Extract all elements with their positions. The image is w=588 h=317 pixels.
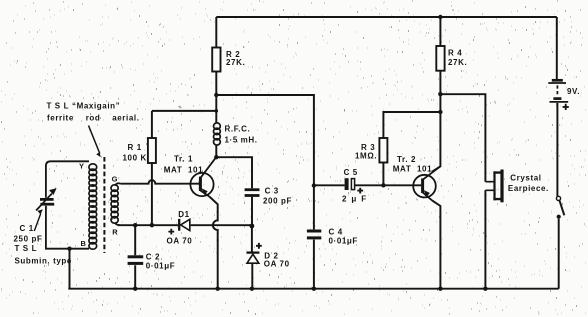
svg-text:Crystal: Crystal	[510, 174, 541, 183]
svg-text:C 5: C 5	[344, 168, 358, 177]
wire AF line to C5	[314, 184, 345, 186]
svg-text:T S L: T S L	[15, 244, 38, 253]
svg-text:C 4: C 4	[329, 228, 343, 237]
junction aerial loop bottom	[67, 247, 71, 251]
wire D2 bottom to rail	[251, 263, 253, 289]
svg-text:100 K.: 100 K.	[123, 154, 150, 163]
wire battery top	[556, 17, 558, 79]
junction R4/R3 node	[438, 110, 442, 114]
wire bottom rail	[68, 288, 558, 290]
svg-text:Tr. 2: Tr. 2	[397, 155, 416, 164]
wire C2 drop	[134, 225, 136, 289]
ferrite rod (dashed)	[103, 157, 105, 253]
junction R4 top rail	[438, 15, 442, 19]
svg-text:ferrite rod aerial.: ferrite rod aerial.	[47, 114, 140, 123]
wire detector R-line right of D1	[191, 224, 252, 226]
wire collector node to C3	[216, 157, 252, 188]
svg-text:2 μ F: 2 μ F	[342, 195, 367, 204]
svg-text:0·01μF: 0·01μF	[146, 262, 175, 271]
wire RFC bottom to collector node	[215, 145, 217, 158]
wire earpiece bottom	[484, 190, 486, 288]
svg-text:R: R	[112, 228, 118, 237]
svg-text:Submin. type: Submin. type	[15, 257, 72, 266]
wire aerial drop	[69, 249, 71, 289]
wire R2 top	[215, 17, 217, 48]
junction C4 rail	[312, 287, 316, 291]
wire battery to switch	[556, 103, 558, 196]
svg-text:B: B	[81, 239, 87, 248]
inductor L2 coupling winding	[111, 183, 120, 225]
crystal earpiece	[485, 170, 502, 203]
svg-text:1MΩ.: 1MΩ.	[355, 152, 377, 161]
svg-text:Earpiece.: Earpiece.	[508, 184, 549, 193]
svg-text:R 1: R 1	[128, 143, 142, 152]
wire Tr2 collector	[432, 112, 441, 172]
svg-text:OA 70: OA 70	[167, 237, 193, 246]
capacitor C5 (electrolytic)	[345, 178, 349, 190]
wire C3 bottom to detector node	[251, 197, 253, 226]
svg-text:G: G	[112, 174, 118, 183]
svg-text:27K.: 27K.	[448, 58, 467, 67]
transistor Q1 (Tr.1 MAT 101)	[190, 158, 215, 196]
resistor R4	[436, 46, 444, 71]
junction R4/earpiece node	[438, 92, 442, 96]
wire base G-line with hop over R1 wire	[120, 180, 199, 184]
capacitor C4	[307, 231, 321, 238]
svg-text:D1: D1	[178, 210, 189, 219]
battery B1 9V	[548, 80, 569, 110]
junction C2 rail	[133, 287, 137, 291]
aerial tuned-loop wiring	[46, 161, 89, 248]
svg-text:0·01μF: 0·01μF	[329, 237, 358, 246]
transistor Q2 (Tr.2 MAT 101)	[413, 166, 440, 200]
capacitor C1 (variable)	[34, 189, 56, 231]
resistor R1	[148, 138, 156, 163]
aerial leader arrow	[89, 126, 101, 158]
junction R2/RFC node	[214, 93, 218, 97]
wire R4 top	[439, 17, 441, 46]
resistor R3	[379, 138, 387, 163]
wire switch to rail	[558, 219, 560, 289]
wire C5 to R3 node to Tr2 base	[355, 184, 422, 186]
svg-text:9V.: 9V.	[567, 87, 580, 96]
stray print mark	[178, 106, 181, 109]
junction Tr2 emitter rail	[438, 287, 442, 291]
svg-text:T S L: T S L	[47, 102, 70, 111]
inductor L1 main winding	[89, 164, 97, 249]
capacitor C2	[128, 257, 144, 264]
wire D2 top	[251, 226, 253, 252]
wire Tr2 emitter	[432, 200, 441, 288]
svg-text:C 2: C 2	[146, 253, 160, 262]
junction C3/D1/D2 detector node	[250, 224, 255, 229]
junction R3/Tr2 base node	[381, 183, 385, 187]
wire Tr1 emitter down with hop over R-line	[209, 197, 217, 289]
junction C2 top	[133, 223, 137, 227]
wire node to C5 branch (right then down)	[216, 95, 314, 186]
wire R2 bottom to node	[215, 72, 217, 96]
junction Tr1 collector node	[214, 155, 218, 159]
junction earpiece rail	[483, 287, 487, 291]
wire C4 column	[313, 186, 315, 289]
svg-text:1·5 mH.: 1·5 mH.	[225, 136, 258, 145]
wire R1 bottom	[151, 163, 153, 225]
svg-text:R.F.C.: R.F.C.	[225, 125, 251, 134]
junction C4/C5 node	[312, 183, 316, 187]
wire detector R-line left	[118, 224, 179, 226]
wire R4 bottom to nodes	[439, 71, 441, 112]
svg-text:MAT 101: MAT 101	[393, 164, 432, 173]
svg-text:250 pF: 250 pF	[14, 235, 43, 244]
svg-text:C 1: C 1	[20, 224, 34, 233]
svg-text:Y: Y	[79, 162, 85, 171]
resistor R2	[212, 48, 220, 72]
svg-text:R 4: R 4	[448, 49, 462, 58]
switch S1	[556, 196, 564, 219]
wire earpiece feed	[440, 94, 485, 182]
wire R3 top L to R4 node	[383, 112, 440, 138]
junction R1 tap	[215, 109, 219, 113]
svg-text:MAT 101: MAT 101	[164, 165, 203, 174]
junction D2 rail	[250, 287, 254, 291]
svg-text:27K.: 27K.	[226, 58, 245, 67]
junction R1/R-line	[150, 223, 154, 227]
wire R3 bottom	[382, 163, 384, 186]
svg-text:“Maxigain”: “Maxigain”	[72, 102, 120, 111]
diode D1 (OA 70)	[179, 219, 190, 231]
svg-text:C 3: C 3	[265, 186, 279, 195]
wire RFC top with R1 tap	[215, 95, 217, 124]
diode D2 (OA 70)	[247, 253, 260, 264]
capacitor C3	[245, 190, 260, 196]
inductor RFC	[214, 123, 221, 145]
junction Tr1 emitter rail	[216, 287, 220, 291]
wire R1 top	[152, 111, 216, 138]
svg-text:Tr. 1: Tr. 1	[174, 155, 193, 164]
wire top rail	[216, 16, 557, 18]
svg-text:OA 70: OA 70	[264, 259, 290, 268]
svg-text:200 pF: 200 pF	[263, 197, 292, 206]
